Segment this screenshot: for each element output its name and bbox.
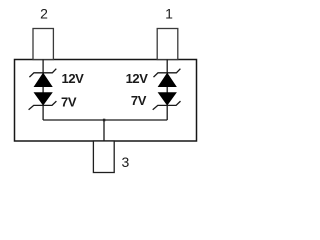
svg-text:2: 2 — [40, 6, 48, 22]
svg-text:7V: 7V — [61, 95, 77, 110]
zener diode D3 12V cathode bar — [154, 69, 181, 77]
pin 3 lead rectangle — [93, 141, 114, 173]
svg-text:12V: 12V — [62, 71, 85, 86]
zener diode D2 7V triangle — [34, 93, 52, 105]
wire: right branch vertical — [166, 60, 168, 121]
junction dot at node 3 — [103, 119, 105, 122]
zener diode D4 7V cathode bar — [153, 101, 181, 110]
zener diode D1 12V cathode bar — [29, 69, 56, 77]
zener diode D2 7V cathode bar — [29, 101, 57, 110]
package body outline — [15, 60, 197, 142]
wire: center vertical to pin 3 — [103, 120, 105, 141]
svg-text:3: 3 — [122, 154, 130, 170]
zener diode D1 12V triangle — [34, 73, 52, 86]
wire: left branch vertical — [42, 60, 44, 121]
pin 1 lead rectangle — [157, 29, 178, 60]
zener diode D4 7V triangle — [158, 93, 176, 105]
svg-text:12V: 12V — [126, 71, 149, 86]
wire: bottom horizontal connecting both branches — [43, 119, 167, 121]
svg-text:1: 1 — [165, 6, 173, 22]
zener diode D3 12V triangle — [158, 73, 176, 86]
pin 2 lead rectangle — [33, 29, 53, 60]
svg-text:7V: 7V — [131, 93, 147, 108]
